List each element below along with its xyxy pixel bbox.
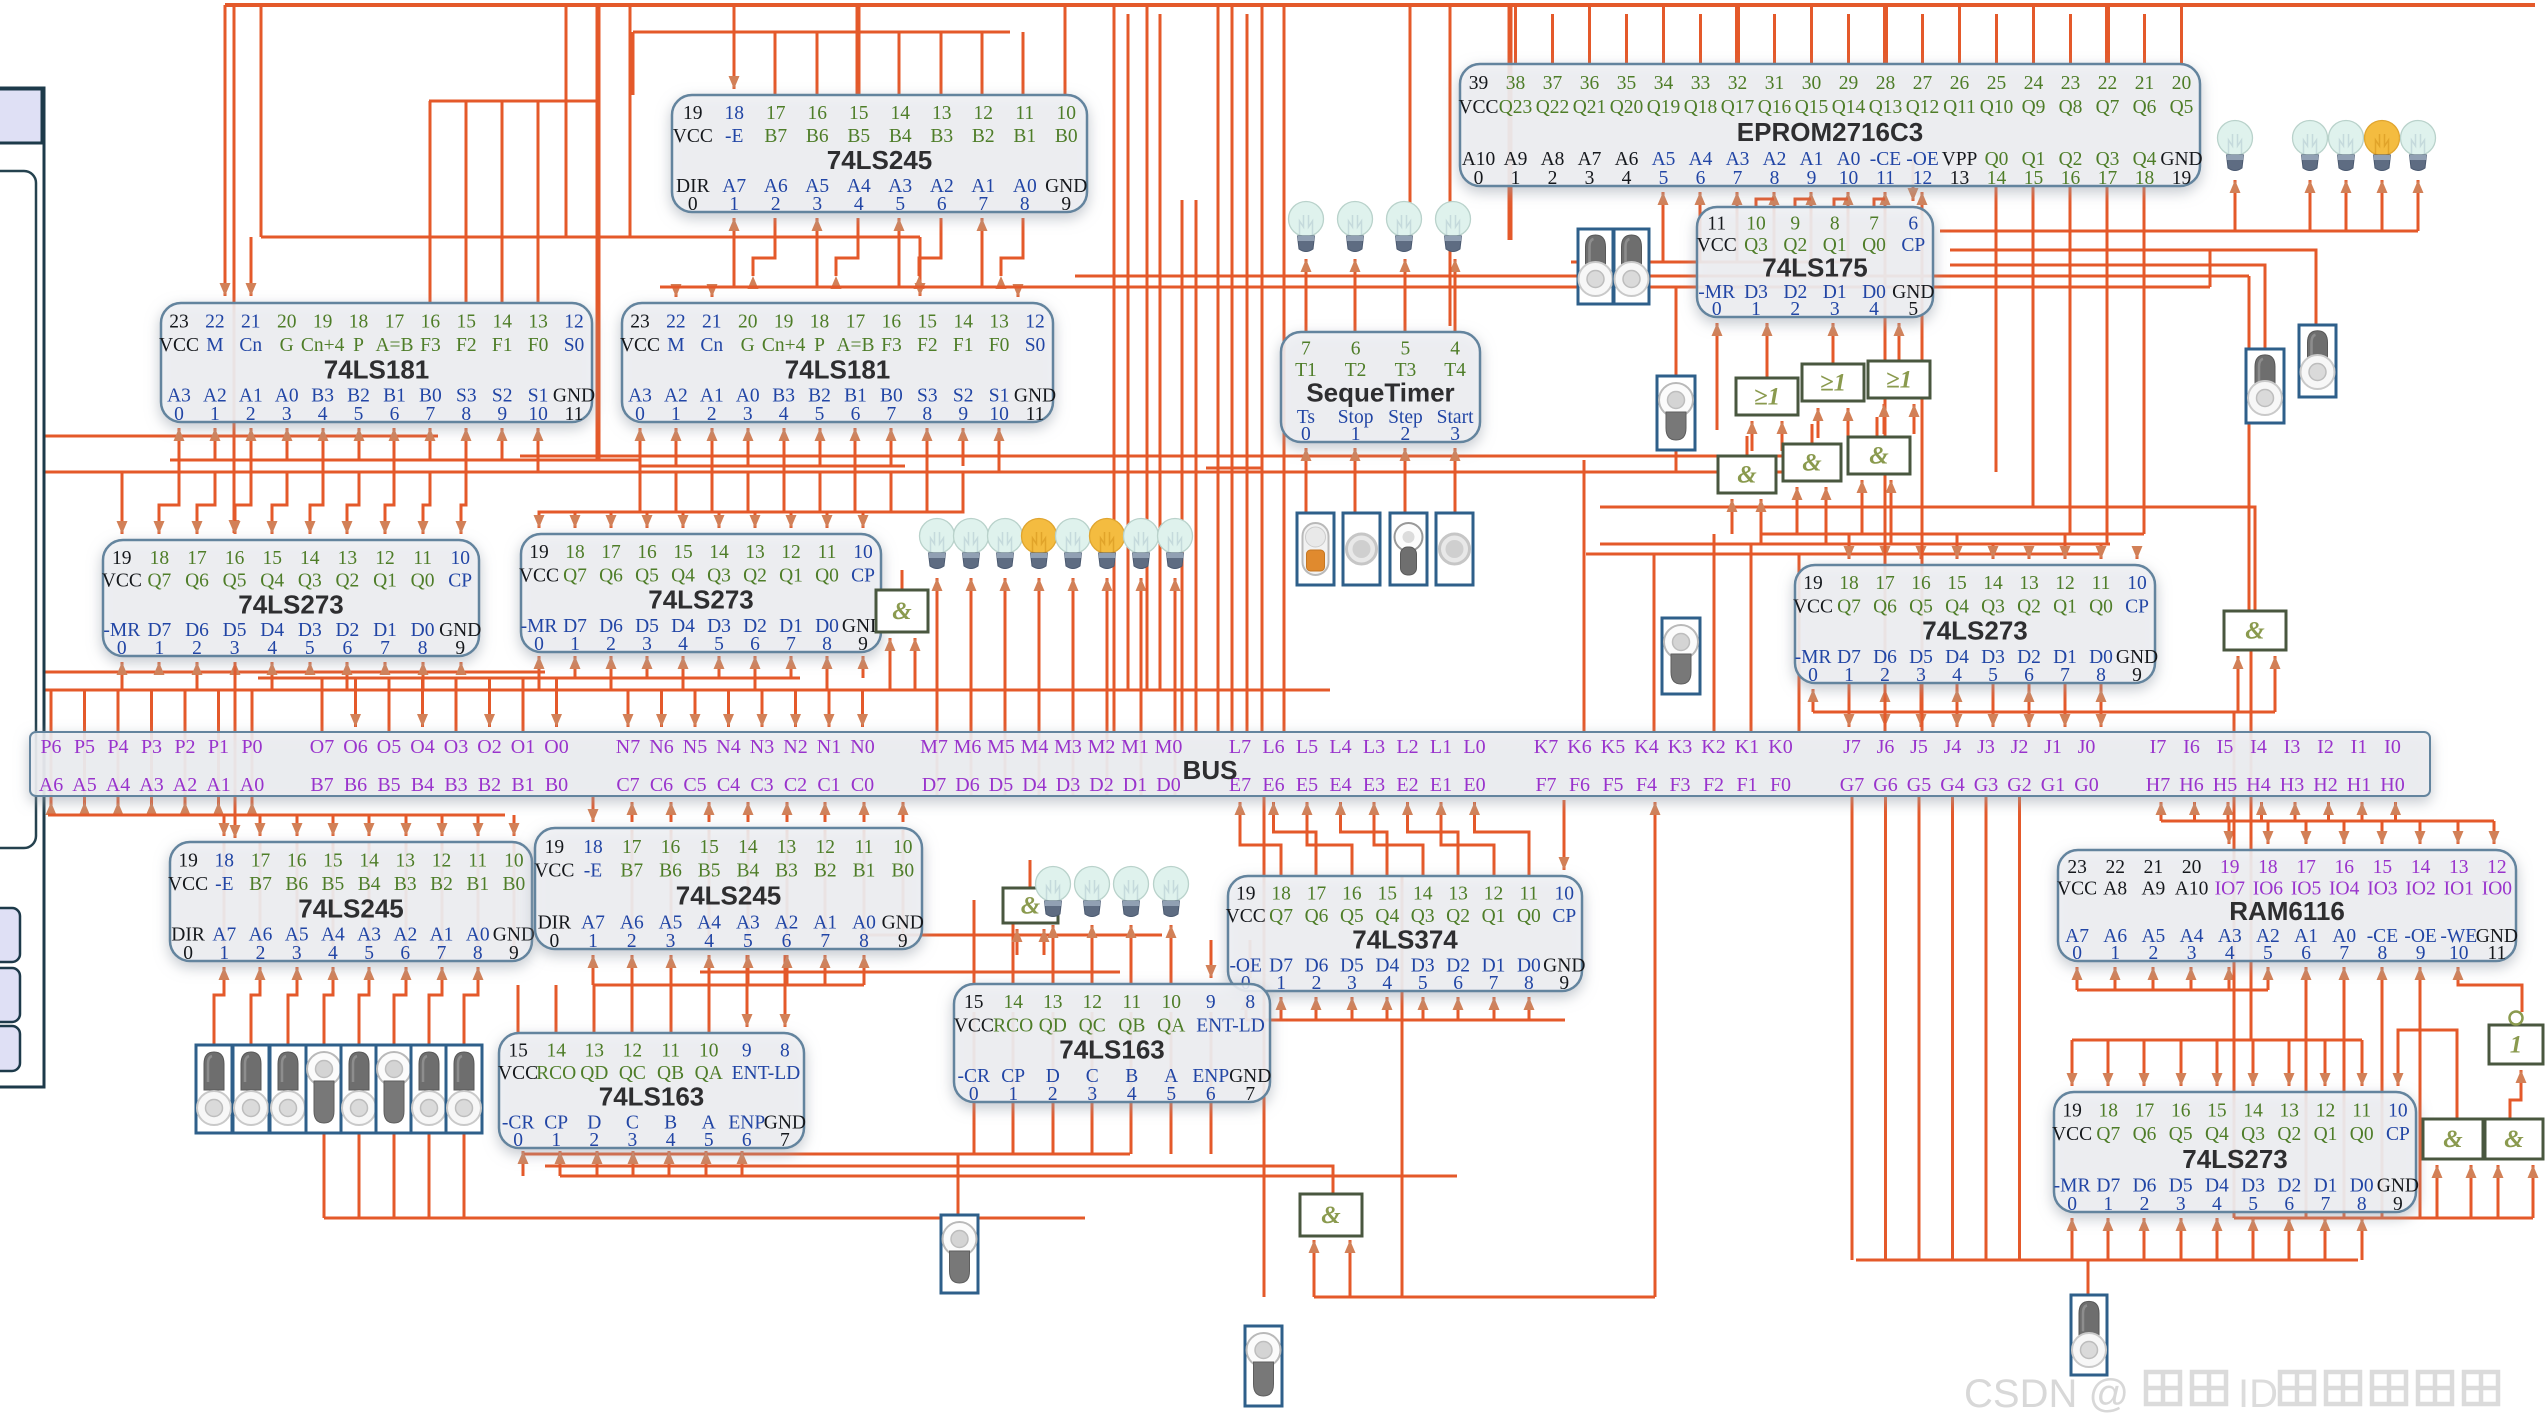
wire through U10 [441, 842, 444, 961]
svg-text:K4: K4 [1634, 736, 1658, 758]
wire EPROM top pin [2105, 5, 2110, 64]
svg-text:L3: L3 [1363, 736, 1385, 758]
wire to U9 top [2096, 544, 2107, 559]
wire U4 to U7 [380, 472, 395, 534]
svg-text:15: 15 [2207, 1101, 2227, 1122]
svg-text:10: 10 [989, 404, 1009, 425]
wire switch to U10 [324, 967, 339, 1045]
wire [816, 32, 819, 95]
svg-text:13: 13 [1043, 992, 1063, 1013]
svg-text:H4: H4 [2246, 774, 2270, 796]
svg-text:VCC: VCC [1697, 235, 1737, 256]
svg-text:Q5: Q5 [1909, 596, 1933, 617]
svg-text:F2: F2 [917, 335, 938, 356]
svg-text:8: 8 [859, 931, 869, 952]
wire bus C in [743, 802, 754, 822]
wire U14 top [631, 985, 634, 1033]
wire trunk y815 [48, 814, 505, 817]
wire EPROM top pin [1847, 14, 1850, 64]
wire to lamp [1000, 578, 1011, 732]
svg-text:12: 12 [432, 850, 452, 871]
wire long vertical [1508, 5, 1513, 240]
AND gate G6 [1783, 444, 1841, 481]
svg-text:Q13: Q13 [1869, 97, 1903, 118]
wire bus C in [859, 802, 870, 822]
svg-text:4: 4 [1869, 299, 1879, 320]
wire [629, 5, 632, 237]
svg-text:10: 10 [528, 404, 548, 425]
svg-text:4: 4 [318, 404, 328, 425]
wire EPROM top pin [1662, 5, 1665, 64]
wire long vertical [1750, 544, 1753, 732]
svg-text:1: 1 [588, 931, 598, 952]
svg-text:Q2: Q2 [743, 565, 767, 586]
wire EPROM top pin [1958, 5, 1961, 64]
lamp L3 [2329, 121, 2364, 171]
svg-text:Q6: Q6 [185, 571, 209, 592]
wire long vertical [1127, 14, 1130, 690]
wire U5 bottom [958, 428, 969, 466]
svg-text:10: 10 [893, 837, 913, 858]
svg-text:23: 23 [630, 311, 650, 332]
wire to bus [522, 678, 525, 732]
wire U7 bottom [380, 662, 391, 675]
wire U4 to U7 [418, 472, 431, 534]
svg-text:6: 6 [782, 931, 792, 952]
svg-text:12: 12 [2055, 573, 2075, 594]
wire to AND G8 [2270, 656, 2281, 712]
svg-text:2: 2 [256, 943, 266, 964]
wire bus A in [146, 802, 157, 815]
wire to bus [1650, 802, 1661, 1297]
svg-text:4: 4 [704, 931, 714, 952]
svg-text:10: 10 [699, 1041, 719, 1062]
wire EPROM top pin [1773, 14, 1776, 64]
svg-text:&: & [2504, 1126, 2524, 1153]
svg-text:4: 4 [1382, 973, 1392, 994]
svg-text:VCC: VCC [1458, 97, 1498, 118]
svg-text:9: 9 [1790, 214, 1800, 235]
wire trunk y821 [2161, 820, 2494, 823]
wire bus N in [790, 690, 801, 727]
wire bus J in [1952, 683, 1963, 727]
wire U4 to U7 [154, 472, 180, 534]
wire to lamp [966, 578, 977, 732]
svg-text:74LS181: 74LS181 [785, 354, 891, 384]
push button PB2 [1343, 513, 1380, 585]
svg-text:-E: -E [215, 874, 233, 895]
svg-text:4: 4 [666, 1130, 676, 1151]
wire switch to U10 [288, 967, 303, 1045]
svg-text:2: 2 [2140, 1194, 2150, 1215]
svg-text:F1: F1 [1736, 774, 1757, 796]
svg-text:0: 0 [969, 1084, 979, 1105]
svg-text:VCC: VCC [159, 335, 199, 356]
svg-text:J4: J4 [1944, 736, 1962, 758]
svg-text:&: & [1737, 462, 1757, 489]
svg-text:B1: B1 [466, 874, 489, 895]
wire U8 bottom [678, 656, 689, 690]
svg-text:11: 11 [1026, 404, 1045, 425]
svg-text:&: & [1869, 443, 1889, 470]
lamp M1 [954, 519, 989, 569]
svg-text:7: 7 [786, 634, 796, 655]
svg-text:15: 15 [849, 103, 869, 124]
svg-text:A9: A9 [2141, 879, 2165, 900]
lamp M7 [1158, 519, 1193, 569]
svg-text:10: 10 [2388, 1101, 2408, 1122]
wire trunk y1218 right [2234, 1217, 2533, 1220]
wire long vertical [1653, 554, 1656, 732]
svg-text:19: 19 [1236, 884, 1256, 905]
wire EPROM Q3 [2106, 186, 2109, 544]
wire U8 bottom [822, 656, 833, 690]
svg-text:L6: L6 [1262, 736, 1284, 758]
svg-text:C7: C7 [616, 774, 639, 796]
OR gate G4 [1868, 361, 1930, 398]
watermark [1964, 1372, 2498, 1416]
svg-text:8: 8 [1245, 992, 1255, 1013]
wire U4 F out [429, 101, 432, 303]
switch D7 [446, 1045, 482, 1133]
svg-text:G6: G6 [1873, 774, 1897, 796]
wire U3 Q [1795, 199, 1811, 207]
wire to U15 [1245, 940, 1256, 978]
svg-text:22: 22 [2105, 857, 2125, 878]
wire to U5 [915, 237, 926, 296]
svg-text:A=B: A=B [836, 335, 874, 356]
svg-text:C3: C3 [750, 774, 773, 796]
wire to U16 top [2103, 1040, 2114, 1086]
wire trunk y32 [633, 31, 1010, 34]
svg-text:S0: S0 [1025, 335, 1046, 356]
wire U12 bottom [1347, 997, 1358, 1020]
wire switch S3 up [1675, 287, 1678, 376]
svg-text:CP: CP [2125, 596, 2149, 617]
svg-text:1: 1 [1008, 1084, 1018, 1105]
wire U12 Q to bus E [1369, 802, 1424, 876]
IC U5 74LS181 right [620, 303, 1056, 425]
wire U4 bottom [354, 428, 365, 460]
wire button to U6 [1301, 448, 1312, 513]
svg-text:A=B: A=B [375, 335, 413, 356]
svg-text:B4: B4 [889, 126, 912, 147]
IC U15 74LS163 right [954, 984, 1272, 1105]
svg-text:1: 1 [551, 1130, 561, 1151]
wire to U9 top [2132, 546, 2143, 559]
svg-text:L2: L2 [1396, 736, 1418, 758]
svg-text:11: 11 [413, 548, 432, 569]
svg-text:8: 8 [922, 404, 932, 425]
svg-text:2: 2 [771, 194, 781, 215]
wire bus H in [2390, 802, 2401, 821]
svg-text:16: 16 [225, 548, 245, 569]
wire trunk y466 [640, 465, 905, 468]
svg-text:20: 20 [2172, 73, 2192, 94]
OR gate G3 [1802, 364, 1864, 401]
svg-text:≥1: ≥1 [1886, 367, 1912, 394]
svg-text:10: 10 [2127, 573, 2147, 594]
wire U12 bottom [1241, 997, 1252, 1020]
svg-text:19: 19 [2062, 1101, 2082, 1122]
svg-text:M2: M2 [1088, 736, 1116, 758]
svg-text:17: 17 [2135, 1101, 2155, 1122]
wire top trunk [225, 3, 2535, 7]
svg-text:13: 13 [777, 837, 797, 858]
wire [1409, 5, 1412, 225]
wire U4 bottom [246, 428, 257, 472]
wire U14 top [708, 985, 711, 1033]
lamp L2 [2293, 121, 2328, 171]
svg-text:7: 7 [2060, 665, 2070, 686]
svg-text:22: 22 [205, 311, 225, 332]
wire bus J in [1844, 683, 1855, 727]
svg-text:7: 7 [887, 404, 897, 425]
svg-text:15: 15 [508, 1041, 528, 1062]
svg-text:VCC: VCC [673, 126, 713, 147]
wire EPROM top pin [2032, 5, 2035, 64]
wire through U11 [863, 830, 866, 947]
wire bus O in [551, 678, 562, 727]
wire switch down [428, 1133, 431, 1218]
wire bus J in [1880, 683, 1891, 727]
wire to U10 top [364, 815, 375, 836]
svg-text:B7: B7 [764, 126, 787, 147]
svg-text:8: 8 [1524, 973, 1534, 994]
svg-text:&: & [2245, 618, 2265, 645]
svg-text:A6: A6 [39, 774, 63, 796]
svg-text:CSDN @: CSDN @ [1964, 1372, 2129, 1416]
svg-text:B5: B5 [377, 774, 400, 796]
svg-text:0: 0 [1301, 424, 1311, 445]
svg-text:21: 21 [2144, 857, 2164, 878]
wire U11 bottom [704, 955, 715, 985]
svg-text:17: 17 [187, 548, 207, 569]
svg-text:7: 7 [380, 638, 390, 659]
svg-text:74LS245: 74LS245 [298, 893, 404, 923]
svg-text:Q4: Q4 [2205, 1124, 2229, 1145]
svg-text:I7: I7 [2150, 736, 2167, 758]
svg-text:VCC: VCC [168, 874, 208, 895]
wire through U11 [631, 830, 634, 947]
svg-text:S0: S0 [564, 335, 585, 356]
svg-text:B1: B1 [511, 774, 534, 796]
svg-text:B2: B2 [478, 774, 501, 796]
svg-text:1: 1 [2103, 1194, 2113, 1215]
wire through U11 [902, 830, 905, 947]
wire trunk y1166 to G10 [545, 1166, 1333, 1194]
wire to U10 top [401, 815, 412, 836]
svg-text:8: 8 [2378, 943, 2388, 964]
svg-text:C0: C0 [851, 774, 874, 796]
wire to lamp [1034, 578, 1045, 732]
svg-text:ENT-LD: ENT-LD [732, 1063, 801, 1084]
wire switch to U10 [214, 967, 230, 1045]
svg-text:F3: F3 [881, 335, 902, 356]
wire U12 bottom [1453, 997, 1464, 1020]
svg-text:15: 15 [673, 542, 693, 563]
svg-text:14: 14 [953, 311, 973, 332]
wire U12 bottom [1276, 997, 1287, 1020]
svg-text:18: 18 [1839, 573, 1859, 594]
svg-text:5: 5 [305, 638, 315, 659]
wire U7 bottom [418, 662, 429, 690]
wire trunk y456 [520, 455, 1800, 458]
svg-text:3: 3 [642, 634, 652, 655]
svg-text:D0: D0 [1156, 774, 1180, 796]
wire U12 bottom [1418, 997, 1429, 1020]
svg-text:3: 3 [230, 638, 240, 659]
wire trunk y276 [1075, 275, 2249, 278]
wire U15 to lamp [1126, 925, 1137, 984]
svg-text:M1: M1 [1121, 736, 1149, 758]
svg-text:N6: N6 [649, 736, 673, 758]
wire U12 Q to bus E [1235, 802, 1282, 876]
wire U4 bottom [318, 428, 329, 472]
svg-text:13: 13 [745, 542, 765, 563]
svg-text:15: 15 [457, 311, 477, 332]
svg-text:E5: E5 [1296, 774, 1318, 796]
svg-text:RCO: RCO [536, 1063, 576, 1084]
svg-text:Q1: Q1 [2053, 596, 2077, 617]
svg-text:1: 1 [1511, 168, 1521, 189]
svg-text:G3: G3 [1974, 774, 1998, 796]
svg-text:Q3: Q3 [707, 565, 731, 586]
wire to U16 top [2357, 1040, 2368, 1086]
svg-text:&: & [892, 598, 912, 625]
svg-text:7: 7 [1733, 168, 1743, 189]
svg-text:F5: F5 [1602, 774, 1623, 796]
svg-text:Q21: Q21 [1573, 97, 1607, 118]
svg-text:K5: K5 [1601, 736, 1625, 758]
svg-text:D5: D5 [989, 774, 1013, 796]
wire U1 bottom [977, 218, 988, 287]
svg-text:16: 16 [637, 542, 657, 563]
wire U7 bottom [117, 662, 128, 690]
wire EPROM top pin [1883, 5, 1888, 64]
lamp T4 [1436, 202, 1471, 252]
svg-text:3: 3 [282, 404, 292, 425]
svg-text:B4: B4 [737, 861, 760, 882]
svg-text:M: M [667, 335, 684, 356]
wire to U9 top [1916, 546, 1927, 559]
wire U9 bottom [2024, 689, 2035, 712]
svg-text:15: 15 [699, 837, 719, 858]
svg-text:5: 5 [1401, 339, 1411, 360]
switch D1 [233, 1045, 269, 1133]
svg-text:N2: N2 [783, 736, 807, 758]
wire gate in [1879, 404, 1890, 434]
svg-text:Q6: Q6 [2133, 97, 2157, 118]
svg-text:5: 5 [1659, 168, 1669, 189]
switch D5 [376, 1045, 412, 1133]
svg-text:2: 2 [1790, 299, 1800, 320]
svg-text:A0: A0 [240, 774, 264, 796]
svg-text:8: 8 [822, 634, 832, 655]
svg-text:0: 0 [183, 943, 193, 964]
svg-text:B5: B5 [847, 126, 870, 147]
wire EPROM top pin [1810, 5, 1813, 64]
wire to U16 top [2320, 1040, 2331, 1086]
wire U15 bottom [1012, 1012, 1015, 1154]
wire to bus [217, 690, 220, 815]
wire to U16 top [2139, 1040, 2150, 1086]
wire bus O in [417, 678, 428, 727]
switch D4 [341, 1045, 377, 1133]
svg-text:3: 3 [743, 404, 753, 425]
wire U5 bottom [850, 428, 861, 472]
svg-text:IO2: IO2 [2405, 879, 2435, 900]
svg-text:9: 9 [1559, 973, 1569, 994]
wire U9 bottom [1952, 689, 1963, 712]
wire switch to U10 [359, 967, 375, 1045]
svg-text:E6: E6 [1262, 774, 1284, 796]
wire gate to U3 [1828, 323, 1839, 364]
wire long vertical [1283, 5, 1286, 732]
switch D2 [270, 1045, 306, 1133]
wire to U2 addr [1658, 192, 1669, 262]
svg-text:F0: F0 [989, 335, 1010, 356]
wire gate in [1792, 487, 1803, 534]
svg-text:P5: P5 [74, 736, 95, 758]
svg-text:K1: K1 [1735, 736, 1759, 758]
svg-text:15: 15 [1947, 573, 1967, 594]
wire gate in [1857, 480, 1868, 534]
wire U4 to U7 [456, 472, 467, 534]
svg-text:1: 1 [1751, 299, 1761, 320]
svg-text:17: 17 [846, 311, 866, 332]
svg-text:B3: B3 [444, 774, 467, 796]
svg-text:1: 1 [1844, 665, 1854, 686]
svg-text:1: 1 [155, 638, 165, 659]
wire U3 Q [1834, 199, 1848, 207]
svg-text:L4: L4 [1329, 736, 1351, 758]
svg-text:N1: N1 [817, 736, 841, 758]
wire to U9 top [2060, 534, 2071, 559]
svg-text:Q9: Q9 [2022, 97, 2046, 118]
svg-text:35: 35 [1617, 73, 1637, 94]
svg-text:IO0: IO0 [2482, 879, 2512, 900]
svg-text:5: 5 [354, 404, 364, 425]
svg-text:Q7: Q7 [1269, 906, 1293, 927]
svg-text:G: G [741, 335, 755, 356]
svg-text:16: 16 [1342, 884, 1362, 905]
IC U12 74LS374 [1226, 876, 1586, 994]
svg-text:13: 13 [585, 1041, 605, 1062]
svg-text:Cn: Cn [700, 335, 723, 356]
wire trunk y554 [1586, 553, 2101, 556]
lamp T1 [1289, 202, 1324, 252]
svg-text:0: 0 [688, 194, 698, 215]
svg-text:13: 13 [2449, 857, 2469, 878]
svg-text:I1: I1 [2351, 736, 2368, 758]
wire U5 bottom [815, 428, 826, 466]
wire to U2 -CE [1880, 192, 1891, 732]
svg-text:≥1: ≥1 [1820, 370, 1846, 397]
svg-text:I2: I2 [2317, 736, 2334, 758]
wire trunk y472 [45, 471, 1800, 474]
wire bus G down [1851, 796, 1854, 1260]
wire U4 bottom [497, 428, 508, 460]
wire to lamp [1102, 578, 1113, 732]
wire bus H in [2290, 802, 2301, 821]
svg-text:QB: QB [1118, 1015, 1145, 1036]
svg-text:I4: I4 [2250, 736, 2267, 758]
svg-text:74LS273: 74LS273 [648, 585, 754, 615]
svg-text:I5: I5 [2217, 736, 2234, 758]
svg-text:14: 14 [1987, 168, 2007, 189]
svg-text:Q6: Q6 [1305, 906, 1329, 927]
